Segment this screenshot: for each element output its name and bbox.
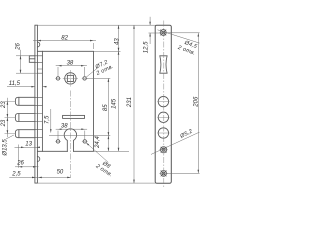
cylinder screw circles <box>56 140 59 143</box>
dim 12,5 arrows <box>149 22 151 26</box>
top screw hole right view <box>160 30 166 36</box>
follower axis extension <box>87 77 111 79</box>
dim 43/145 junction arrows <box>118 48 120 52</box>
svg-text:11,5: 11,5 <box>9 81 21 87</box>
dim 82 left arrow <box>37 40 41 42</box>
dim 2,5 + 50 chain <box>9 176 70 178</box>
leader 7,2 <box>86 68 98 77</box>
dim 85 + 24,4 chain <box>107 78 109 151</box>
dim 206 bottom arrow <box>198 170 200 174</box>
dim 82 right arrow <box>90 40 94 42</box>
follower screw circles <box>56 77 59 80</box>
dim 12,5 <box>149 17 161 44</box>
latch hidden lines through gap <box>35 56 43 138</box>
label 8 2 otv <box>94 158 117 179</box>
body top/bottom extensions right <box>94 51 130 151</box>
follower circle <box>65 73 76 84</box>
dim 13 <box>15 146 40 148</box>
svg-text:145: 145 <box>112 98 118 109</box>
svg-text:82: 82 <box>61 36 68 42</box>
cylinder screw hole right view <box>161 147 167 153</box>
svg-text:Ø13,5: Ø13,5 <box>2 139 8 157</box>
dim 82 line <box>33 40 96 42</box>
dim 231 <box>133 25 135 183</box>
dim 38 bottom right arrow <box>81 128 85 130</box>
dim 13 arrows <box>21 147 25 149</box>
dim 23 lower arrow <box>7 130 9 134</box>
leader o4,5 <box>158 30 200 43</box>
dim 38 bottom <box>56 129 87 139</box>
dim 145 bottom arrow <box>118 148 120 152</box>
svg-text:231: 231 <box>127 97 133 108</box>
svg-text:26: 26 <box>16 42 22 50</box>
bottom extension y=183.1 <box>37 182 156 184</box>
svg-text:24,4: 24,4 <box>95 136 101 149</box>
faceplate (right view) <box>155 25 171 183</box>
leader o5,2 <box>151 132 200 154</box>
long top extension y=25.2 <box>37 24 156 26</box>
dim 24,4 bottom arrow <box>108 148 110 152</box>
dim 11,5 <box>7 86 47 88</box>
svg-text:7,5: 7,5 <box>44 115 50 124</box>
leader o8 <box>86 143 108 163</box>
svg-text:38: 38 <box>67 60 74 66</box>
dim 2,5 arrows <box>32 177 36 179</box>
centrelines <box>5 21 170 189</box>
dim 7,5 <box>50 109 52 133</box>
deadbolt block 2 <box>15 114 35 122</box>
dim 38 top <box>56 66 87 76</box>
label 5,2 <box>179 128 195 140</box>
dim 231 bottom arrow <box>133 180 135 184</box>
svg-text:38: 38 <box>61 124 68 130</box>
svg-text:23: 23 <box>1 101 7 109</box>
svg-text:50: 50 <box>57 170 64 176</box>
svg-text:206: 206 <box>194 96 200 108</box>
svg-text:23: 23 <box>1 119 7 127</box>
svg-text:43: 43 <box>115 38 121 45</box>
dim 43 + 145 chain <box>118 25 120 151</box>
svg-text:12,5: 12,5 <box>144 41 150 53</box>
bottom screw bump <box>37 157 39 162</box>
dim 23 upper arrow <box>7 101 9 105</box>
lock body outline <box>37 51 93 151</box>
hub hole 1 <box>158 96 168 106</box>
hub hole 2 <box>158 112 168 122</box>
latch bolt <box>29 56 35 63</box>
svg-text:26: 26 <box>16 161 24 167</box>
dim 23/23 bolts <box>6 98 8 137</box>
arrowheads <box>7 22 200 183</box>
dim 85 top arrow <box>108 78 110 82</box>
hub hole 3 <box>158 128 168 138</box>
dimension texts <box>1 36 200 178</box>
cylinder keyhole <box>64 129 76 151</box>
deadbolt block 1 <box>15 97 35 105</box>
bottom screw hole right view <box>161 171 167 177</box>
dim 26 latch <box>16 50 37 73</box>
svg-text:13: 13 <box>25 142 32 148</box>
leader o13,5 <box>6 135 14 139</box>
dim 11,5 arrows <box>31 86 35 88</box>
countersink cross marks <box>160 30 166 177</box>
extension and dimension lines <box>6 17 200 183</box>
dim 7,5 arrow <box>50 129 52 133</box>
dim 231 top arrow <box>133 25 135 29</box>
dim 26 bottom arrows <box>19 166 23 168</box>
latch slot (right view) <box>160 56 167 73</box>
top screw bump <box>37 42 39 47</box>
dim 26 bottom <box>15 145 39 168</box>
label 4,5 2 otv <box>176 38 198 57</box>
svg-text:85: 85 <box>103 104 109 111</box>
dim 43 top arrow <box>118 25 120 29</box>
dim 85/24,4 junction arrows <box>108 132 110 136</box>
dim 23 middle arrows <box>7 118 9 122</box>
dim 26 latch top arrow <box>20 56 22 60</box>
dim 206 <box>166 33 199 174</box>
dim 26 latch bottom arrow <box>20 70 22 74</box>
dim 206 top arrow <box>198 33 200 37</box>
faceplate side strip (left view) <box>35 25 38 183</box>
svg-text:2,5: 2,5 <box>11 171 21 177</box>
follower square hole <box>67 75 73 81</box>
dim 50 right arrow <box>67 177 71 179</box>
deadbolt block 3 <box>15 130 35 138</box>
mounting slot <box>63 115 85 118</box>
dim 38 bottom left arrow <box>58 128 62 130</box>
label 7,2 2 otv <box>92 58 115 77</box>
dim 38 top right arrow <box>81 65 85 67</box>
dim 38 top left arrow <box>58 65 62 67</box>
leader arrow at cylinder screw circle <box>85 142 89 146</box>
